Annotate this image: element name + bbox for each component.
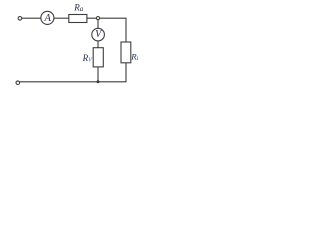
wire resistor Ra to top-right corner [87, 17, 126, 19]
node junction top (tap to voltmeter) [96, 17, 99, 20]
terminal T2 (bottom-left input) [16, 81, 20, 85]
svg-text:A: A [44, 13, 52, 24]
wire resistor R to bottom-right corner [125, 63, 127, 82]
wire voltmeter to resistor Rv [97, 41, 99, 48]
bottom wire [20, 81, 127, 83]
resistor Ra [69, 15, 87, 23]
wire terminal T1 to ammeter [22, 17, 41, 19]
voltmeter V1 [92, 28, 105, 41]
node junction bottom [97, 80, 100, 83]
svg-text:Ra: Ra [73, 3, 84, 14]
resistor R [121, 42, 131, 63]
wire resistor Rv to bottom wire [97, 67, 99, 82]
resistor Rv [93, 48, 103, 67]
wire top-right corner down to resistor R [125, 18, 127, 42]
terminal T1 (top-left input) [18, 17, 22, 21]
ammeter A1 [41, 11, 54, 24]
wire junction to voltmeter [97, 20, 99, 28]
wire ammeter to resistor Ra [54, 17, 69, 19]
